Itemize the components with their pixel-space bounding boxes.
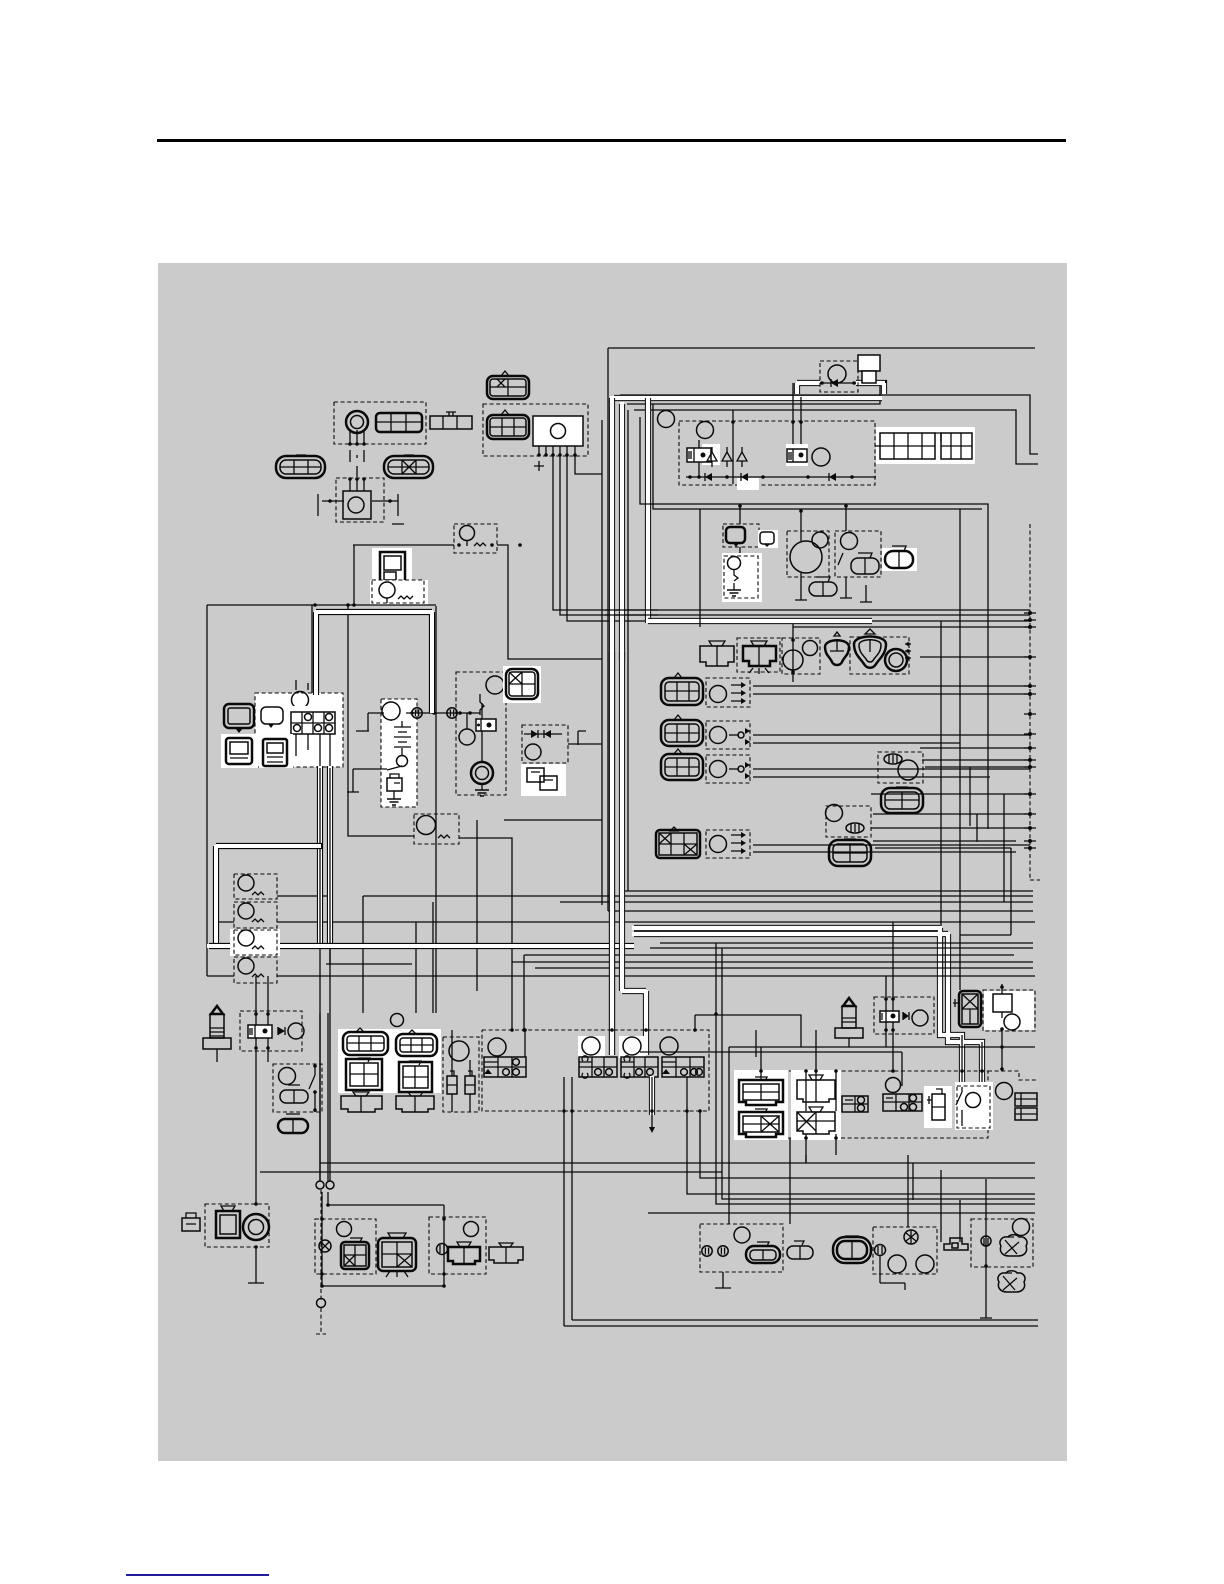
white harness right band bbox=[632, 926, 982, 1092]
flasher element 3 bbox=[252, 946, 264, 949]
position circle 2 bbox=[710, 727, 727, 744]
bullet connector 1 bbox=[412, 708, 422, 718]
plus mark bbox=[534, 461, 544, 471]
relay circle bbox=[288, 1023, 304, 1039]
starter connector with X bbox=[506, 669, 538, 699]
horn dashed box 2 bbox=[205, 1204, 269, 1247]
oil indicator circle bbox=[728, 557, 741, 570]
sensor circle bbox=[898, 760, 918, 780]
battery plates bbox=[391, 720, 411, 747]
fuse dashed box K bbox=[454, 524, 497, 553]
top rule bbox=[157, 139, 1066, 142]
starter connector white patch bbox=[503, 666, 541, 703]
switch block row 4 bbox=[662, 1057, 704, 1077]
switch block 2b bbox=[399, 1061, 432, 1092]
wire: pilot stem bbox=[795, 509, 807, 600]
resistor unit white patch bbox=[372, 548, 412, 586]
switch connector 1a bbox=[343, 1028, 388, 1055]
wire: ignition coil leads bbox=[350, 430, 364, 491]
white harness left return bbox=[216, 845, 322, 946]
diode pair bbox=[524, 733, 562, 735]
horn bracket box bbox=[216, 1206, 240, 1238]
white sleeve: block3 ground lead bbox=[649, 1076, 655, 1115]
turnsignal relay dashed box bbox=[414, 814, 459, 844]
wire: switch row drops bbox=[525, 1030, 756, 1326]
relay coil block bbox=[476, 719, 496, 731]
meter connector block bbox=[291, 712, 335, 734]
ground: battery bbox=[393, 791, 395, 799]
main fuse dashed box bbox=[372, 580, 424, 603]
white harness wire main horizontal bbox=[207, 943, 634, 949]
bulb socket 2 bbox=[998, 1271, 1025, 1292]
charger box bbox=[387, 778, 402, 791]
wire: horn ground bbox=[248, 1247, 264, 1283]
frame bracket right bbox=[392, 494, 404, 524]
dimmer circle bbox=[841, 533, 858, 550]
pickup circle bbox=[658, 411, 675, 428]
speedometer symbol bbox=[224, 704, 254, 733]
pilot small circle bbox=[812, 532, 828, 548]
clutch switch blade bbox=[309, 1064, 315, 1112]
position dashed box 3 bbox=[706, 755, 750, 783]
white harness meter cable sleeves bbox=[320, 766, 330, 945]
relay circle right bbox=[996, 1083, 1013, 1100]
sidestand switch body bbox=[858, 355, 880, 383]
white jumper left of relay bbox=[796, 383, 820, 394]
diode bracket bbox=[578, 731, 586, 745]
neutral switch dashed box bbox=[873, 1227, 937, 1274]
coil connector 2b bbox=[797, 1107, 835, 1134]
regulator circle 1 bbox=[697, 422, 714, 439]
rectifier white patch bbox=[521, 764, 566, 796]
switch dashed box bbox=[826, 806, 871, 837]
switch block row 2 bbox=[579, 1056, 617, 1078]
CDI pin junction dots bbox=[537, 453, 577, 457]
wire: lamp row pins bbox=[905, 644, 911, 658]
CDI indicator circle bbox=[551, 424, 566, 439]
ignition dashed box right bbox=[736, 1071, 988, 1138]
aux circle 4 bbox=[710, 836, 727, 853]
wire: band verticals bbox=[416, 820, 524, 1030]
regulator white pocket 1 bbox=[702, 444, 720, 465]
flasher circle 1 bbox=[238, 875, 254, 891]
resistor unit body bbox=[380, 552, 405, 583]
switch block row 1 bbox=[484, 1057, 526, 1077]
connector C with X cell bbox=[487, 371, 529, 399]
position circle 3 bbox=[710, 761, 727, 778]
wire: bottom-left stubs bbox=[322, 1192, 444, 1286]
wire: lower verticals bbox=[320, 1013, 992, 1318]
wire: right double feed bbox=[640, 404, 988, 829]
main fuse element bbox=[387, 596, 413, 603]
starter relay 2 dashed box bbox=[240, 1011, 302, 1051]
wire: main left run bbox=[207, 604, 436, 606]
white harness wire top right horizontal bbox=[612, 395, 882, 401]
white harness vertical B bbox=[619, 402, 625, 660]
flasher unit dashed box 4 bbox=[234, 957, 277, 983]
wire: twist drop dashed bbox=[316, 1190, 326, 1334]
clutch circle bbox=[279, 1068, 296, 1085]
indicator lamp white patch 2 bbox=[722, 553, 762, 602]
oil cross component bbox=[944, 1238, 968, 1250]
junction dots on feed bbox=[410, 711, 472, 715]
meter lamp white patch 2 bbox=[259, 734, 293, 768]
flasher socket R bbox=[448, 1242, 480, 1264]
white harness vertical C bbox=[645, 396, 651, 623]
flasher lamp left bbox=[825, 640, 849, 665]
wire: second run with corner bbox=[620, 395, 1038, 454]
relay2 block bbox=[880, 1011, 899, 1022]
ground: oil bbox=[733, 583, 735, 590]
relay diode bbox=[820, 382, 856, 384]
white harness meter feed bbox=[315, 611, 433, 713]
starter fuse element bbox=[480, 694, 484, 715]
CDI unit body bbox=[533, 416, 583, 446]
meter connector white patch bbox=[287, 706, 339, 740]
headlamp unit bbox=[378, 1233, 416, 1277]
flasher unit dashed box 2 bbox=[234, 902, 277, 928]
starting circuit relay dashed box bbox=[820, 361, 858, 392]
sidestand dashed box bbox=[957, 1086, 990, 1128]
dimmer connector bbox=[851, 553, 879, 574]
brake bullet 2 bbox=[718, 1246, 728, 1256]
wire: diode feed bbox=[504, 744, 602, 820]
ground bus dots bbox=[1028, 611, 1032, 850]
spark block 1 bbox=[842, 1096, 868, 1112]
meter circle bbox=[292, 692, 309, 709]
oil fuse element bbox=[734, 570, 738, 581]
magneto connector white patch bbox=[876, 427, 975, 464]
relay3 body bbox=[993, 994, 1012, 1012]
handlebar switch dashed box bbox=[482, 1030, 709, 1111]
switch connector 2a bbox=[396, 1030, 437, 1056]
main fuse holder left bbox=[203, 1006, 231, 1062]
headlight relay dashed box bbox=[874, 997, 934, 1034]
dimmer blade bbox=[838, 509, 846, 565]
relay junction dots bbox=[820, 381, 856, 385]
wire: relay outputs into regulator bbox=[699, 383, 801, 484]
neutral white patch bbox=[924, 1086, 952, 1128]
flasher socket L bbox=[341, 1238, 369, 1269]
wire: long runs overdraw bbox=[605, 610, 658, 615]
wire: right feeder lines bbox=[753, 621, 1030, 852]
coil connector 1a bbox=[739, 1077, 783, 1105]
starter cut relay dashed box bbox=[983, 990, 1035, 1031]
ground bus dashed line bbox=[1030, 524, 1040, 880]
white harness vertical pair A bbox=[609, 396, 615, 1055]
tail lamp socket bbox=[743, 641, 776, 674]
flasher circle 2 bbox=[238, 903, 254, 919]
headlight connector 1 bbox=[661, 673, 703, 705]
wire: tachometer drive run bbox=[348, 605, 414, 836]
wire: right drop to feed bbox=[435, 606, 437, 1013]
CDI pins bbox=[539, 446, 575, 454]
oil bullet bbox=[981, 1236, 991, 1246]
tail lamp dashed box bbox=[737, 638, 780, 672]
relay block bbox=[248, 1025, 272, 1038]
ground: rear brake bbox=[715, 1272, 731, 1288]
wire: meter feed lines bbox=[296, 680, 308, 690]
neutral indicator bbox=[760, 532, 774, 547]
wire: lamp circle mid bbox=[391, 1014, 404, 1027]
flasher unit dashed box 3 bbox=[234, 930, 277, 955]
diode circle bbox=[525, 744, 541, 760]
wire: regulator to connector bbox=[875, 445, 880, 447]
wire: main feed with bullets bbox=[356, 713, 480, 731]
wide connector 2 bbox=[396, 1092, 434, 1112]
horn body bbox=[343, 491, 371, 519]
diode connector 2 bbox=[953, 991, 981, 1027]
front flasher dashed box L bbox=[315, 1219, 376, 1274]
odometer symbol bbox=[263, 739, 287, 766]
headlight circle 1 bbox=[710, 686, 727, 703]
oval connector bottom bbox=[833, 1236, 871, 1263]
main switch circle bbox=[382, 702, 400, 720]
starter relay circle bbox=[486, 676, 504, 694]
dimmer connector 2 bbox=[885, 546, 913, 568]
turnsignal relay element bbox=[438, 835, 450, 838]
horn circle bbox=[348, 497, 364, 513]
flasher element 1 bbox=[252, 892, 264, 895]
pilot big circle bbox=[790, 541, 822, 573]
horn dashed box bbox=[336, 478, 384, 522]
relay diode bbox=[278, 1027, 285, 1035]
switch connector bbox=[829, 839, 871, 866]
oil switch dashed box bbox=[724, 556, 758, 598]
wire: bus band lines bbox=[326, 891, 1033, 1013]
clutch switch dashed box bbox=[273, 1064, 322, 1112]
relay2 diode bbox=[903, 1012, 909, 1020]
relay2 circle bbox=[912, 1010, 928, 1026]
switch circle row 4 bbox=[660, 1037, 678, 1055]
starter motor bbox=[471, 762, 493, 784]
twisted pair circles bbox=[316, 1181, 324, 1189]
wire: top main run bbox=[608, 347, 1035, 349]
position connector R bbox=[489, 1243, 523, 1263]
wire: brake drops bbox=[452, 1030, 470, 1112]
wire: relay verticals bbox=[256, 976, 268, 1204]
regulator dashed box bbox=[679, 421, 875, 485]
sensor connector bbox=[881, 787, 923, 813]
magneto connector bbox=[880, 433, 972, 459]
wire: meter cable cores bbox=[320, 768, 330, 945]
relay3 circle bbox=[1004, 1014, 1020, 1030]
flasher bullet R bbox=[437, 1244, 448, 1255]
brake bullet 1 bbox=[702, 1246, 712, 1256]
wire: CDI pin drops bbox=[553, 456, 1030, 621]
wide connector 1 bbox=[341, 1092, 382, 1112]
meter lamp white patch 1 bbox=[221, 734, 258, 768]
switch block row 3 bbox=[621, 1056, 658, 1078]
brake connector bbox=[746, 1242, 780, 1263]
wire: flasher outputs bbox=[207, 896, 1035, 976]
clutch connector bbox=[280, 1085, 308, 1103]
headlight dashed box 1 bbox=[706, 678, 750, 707]
neutral bullet bbox=[875, 1245, 886, 1256]
sensor dashed box bbox=[878, 752, 923, 783]
white harness horizontal mid bbox=[646, 618, 872, 624]
switch circle row 1 bbox=[488, 1038, 506, 1056]
wire: fourth run bbox=[634, 410, 1038, 464]
rectifier blocks bbox=[527, 768, 557, 790]
wire: white core conductors bbox=[962, 1035, 982, 1092]
battery fuse circle bbox=[397, 756, 408, 767]
flasher lamp right bbox=[854, 629, 886, 668]
tail lamp connector bbox=[700, 641, 734, 666]
regulator circle 2 bbox=[812, 448, 830, 466]
switch circle row 2 bbox=[582, 1037, 600, 1055]
regulator block 2 bbox=[787, 449, 807, 462]
oil sensor dashed box bbox=[971, 1219, 1033, 1267]
wire: relay drop bbox=[467, 703, 482, 762]
indicator white patch bbox=[758, 530, 778, 548]
ground: starter bbox=[481, 784, 483, 790]
position pin stub 2 bbox=[729, 734, 739, 736]
wire: cluster hangers bbox=[740, 504, 846, 553]
main fuse circle bbox=[379, 582, 395, 598]
battery dashed box bbox=[381, 699, 417, 807]
footer link line bbox=[126, 1574, 269, 1576]
diode row bbox=[686, 476, 876, 478]
wire: relay output bbox=[459, 838, 512, 1030]
indicator cluster dashed box 1 bbox=[723, 524, 759, 547]
switch circle bbox=[826, 805, 843, 822]
front flasher dashed box R bbox=[429, 1217, 486, 1274]
CDI unit dashed box bbox=[483, 404, 588, 456]
tachometer symbol bbox=[226, 738, 252, 764]
mid connector bbox=[787, 1241, 813, 1259]
fuse holder 2 bbox=[835, 998, 863, 1038]
flasher circle R bbox=[464, 1222, 479, 1237]
neutral plug bbox=[927, 1089, 945, 1120]
wire: block4 run bbox=[648, 943, 1035, 1224]
bulb socket 1 bbox=[1000, 1235, 1027, 1256]
meter assembly white backing bbox=[255, 693, 343, 767]
switch white patch 2 bbox=[578, 1036, 605, 1058]
dimmer white patch bbox=[882, 548, 917, 571]
sidestand white patch bbox=[955, 1082, 993, 1130]
coil connector 2a bbox=[797, 1075, 835, 1102]
twist lower circle bbox=[317, 1299, 326, 1308]
wire: dashed bottom ticks bbox=[523, 1028, 702, 1113]
white jumper right of relay bbox=[856, 383, 885, 394]
starter relay dashed box bbox=[456, 672, 506, 795]
connector on coil bbox=[376, 413, 422, 432]
fuse circle bbox=[460, 526, 475, 541]
diode pack right bbox=[1015, 1090, 1084, 1120]
lower connector bbox=[809, 577, 837, 596]
ignition coil assembly dashed box bbox=[334, 402, 426, 444]
connector E bbox=[487, 410, 529, 439]
horn connector plug bbox=[182, 1213, 200, 1231]
fuse element bbox=[467, 541, 486, 546]
headlight pin fan 1 bbox=[731, 682, 746, 704]
wire: misc right verticals bbox=[790, 1155, 960, 1242]
flasher circle 3 bbox=[238, 930, 254, 946]
switch block 1b bbox=[346, 1058, 382, 1090]
wire: relay2 verticals bbox=[640, 922, 1035, 1086]
ignition coil primary ring bbox=[346, 411, 368, 433]
battery switch blade bbox=[347, 748, 402, 792]
connector B bbox=[430, 416, 472, 429]
aux connector with X bbox=[656, 827, 700, 858]
main fuse white patch bbox=[370, 580, 428, 605]
neutral circle 1 bbox=[888, 1255, 906, 1273]
high beam indicator bbox=[726, 527, 745, 547]
coil white patch 2 bbox=[791, 1070, 841, 1140]
starter cut relay white backing bbox=[984, 991, 1034, 1030]
brake switch dashed box bbox=[443, 1037, 479, 1112]
oval connector H with X bbox=[384, 455, 433, 478]
diode block dashed box bbox=[522, 725, 568, 763]
flasher element 4 bbox=[252, 974, 264, 977]
spark circle bbox=[886, 1078, 901, 1093]
position pin stub 3 bbox=[729, 768, 739, 770]
relay circle bbox=[459, 729, 475, 745]
wire: ign box feeds bbox=[761, 1030, 836, 1163]
handlebar white patch bbox=[338, 1029, 441, 1093]
switch oval bbox=[846, 823, 864, 833]
ground: neutral bbox=[880, 1256, 905, 1290]
brake plug 2 bbox=[465, 1071, 475, 1094]
bullet connector 2 bbox=[447, 708, 457, 718]
pilot box dashed bbox=[787, 531, 829, 577]
flasher element 2 bbox=[252, 919, 264, 922]
position connector 2 bbox=[661, 715, 703, 746]
scr triangles bbox=[707, 452, 747, 461]
indicator symbol bbox=[261, 707, 283, 728]
coil white patch 1 bbox=[734, 1070, 788, 1140]
wire: bottom double run bbox=[564, 1320, 1038, 1326]
wire: relay3 vertical bbox=[1001, 984, 1003, 1071]
wire: left trunk vertical bbox=[206, 605, 208, 976]
dimmer dashed box bbox=[835, 531, 881, 577]
rear brake dashed box bbox=[700, 1224, 783, 1272]
ground: dimmer bbox=[840, 577, 872, 602]
wire: horn pins bbox=[322, 500, 398, 502]
wire: trunk verticals bbox=[602, 348, 628, 911]
wire: meter feed black partner bbox=[311, 605, 313, 693]
wire: right verticals bbox=[941, 509, 1011, 990]
turnsignal relay circle bbox=[417, 816, 436, 835]
tail ring lamp bbox=[885, 649, 907, 671]
spark block 2 bbox=[883, 1094, 922, 1111]
sidestand circle bbox=[966, 1093, 981, 1108]
wire: bottom lamp header bbox=[322, 1192, 444, 1286]
starting circuit relay circle bbox=[828, 365, 846, 383]
brake dashed box bbox=[782, 638, 820, 674]
flasher circle 4 bbox=[238, 958, 254, 974]
wire: third run with corner bbox=[627, 386, 880, 404]
flasher circle L bbox=[337, 1222, 352, 1237]
aux dashed box 4 bbox=[706, 830, 750, 858]
switch white patch 3 bbox=[619, 1036, 646, 1058]
wire: fuse drop bbox=[353, 545, 355, 605]
ground bus ticks bbox=[1024, 613, 1036, 848]
sidestand blade bbox=[956, 1087, 962, 1126]
switch circle row 3 bbox=[623, 1037, 641, 1055]
coil connector 1b bbox=[739, 1109, 783, 1137]
flasher unit dashed box 1 bbox=[234, 874, 277, 899]
dashed jog extension bbox=[988, 1071, 1036, 1080]
regulator white pocket 3 bbox=[737, 478, 759, 490]
oil circle bbox=[1013, 1219, 1030, 1236]
position connector 3 bbox=[661, 749, 703, 780]
wire: block3 ground lead bbox=[651, 1077, 653, 1127]
sensor oval bbox=[884, 754, 902, 764]
position dashed box 2 bbox=[706, 721, 750, 749]
battery white backing bbox=[381, 699, 417, 807]
